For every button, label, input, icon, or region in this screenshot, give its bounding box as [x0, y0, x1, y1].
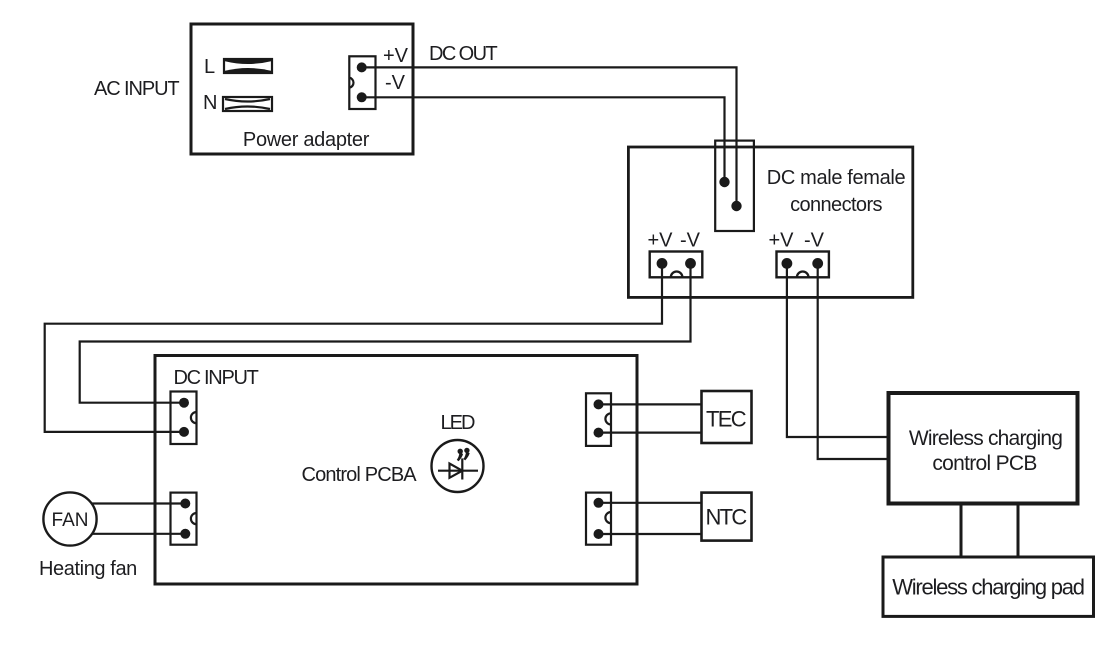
pin J3 -V: [685, 258, 696, 269]
svg-text:Wireless charging: Wireless charging: [909, 427, 1062, 450]
connector J6 (fan): [171, 493, 197, 545]
pin J2 b: [731, 201, 741, 211]
svg-text:Wireless charging pad: Wireless charging pad: [892, 575, 1083, 600]
wire TEC lower: [599, 432, 702, 434]
pin J6 upper: [180, 499, 190, 509]
connector J6 notch: [191, 513, 197, 524]
pin J4 -V: [812, 258, 823, 269]
connector J4 (female, to wireless PCB): [777, 252, 829, 278]
svg-text:-V: -V: [385, 72, 406, 94]
AC blade N: [223, 97, 272, 111]
connector J8 (NTC): [586, 493, 611, 545]
connector J4 notch: [797, 272, 809, 278]
connector J3 notch: [671, 271, 683, 277]
connector J3 (female, to control PCBA): [650, 252, 703, 278]
LED triangle: [450, 464, 463, 478]
wire J3 -V to DC INPUT upper pin: [80, 263, 691, 402]
pin J6 lower: [180, 529, 190, 539]
pin J4 +V: [782, 258, 793, 269]
svg-text:FAN: FAN: [52, 510, 89, 531]
connector J5 notch: [191, 412, 197, 423]
pin J7 upper: [594, 399, 604, 409]
fan FAN1 circle: [43, 492, 96, 545]
svg-text:LED: LED: [441, 412, 475, 434]
pin J5 lower: [179, 427, 189, 437]
LED anode wire: [438, 470, 478, 472]
svg-text:DC INPUT: DC INPUT: [174, 367, 259, 389]
LED cathode bar: [461, 458, 463, 479]
svg-text:+V: +V: [769, 230, 795, 252]
svg-text:+V: +V: [648, 230, 674, 252]
wire fan lower: [92, 533, 184, 535]
control PCBA box: [155, 356, 637, 585]
NTC box: [702, 493, 752, 541]
wire NTC upper: [599, 502, 702, 504]
wire control PCB to pad right: [1017, 505, 1020, 557]
pin J8 upper: [594, 498, 604, 508]
svg-text:-V: -V: [680, 230, 701, 252]
power adapter box: [191, 24, 413, 154]
wire J4 -V to wireless charging control PCB: [818, 263, 888, 459]
connector J7 (TEC): [586, 393, 611, 446]
pin J5 upper: [179, 398, 189, 408]
wire fan upper: [92, 502, 184, 504]
pin J3 +V: [657, 258, 668, 269]
wire NTC lower: [599, 533, 702, 535]
LED circle: [432, 440, 484, 492]
DC male female connectors box: [628, 147, 912, 297]
TEC box: [702, 391, 752, 443]
svg-text:Control PCBA: Control PCBA: [302, 464, 418, 486]
wire J3 +V to DC INPUT lower pin: [45, 263, 662, 432]
connector J7 notch: [605, 413, 611, 424]
svg-text:connectors: connectors: [790, 194, 882, 216]
svg-text:DC male female: DC male female: [767, 167, 906, 189]
LED emission arrows: [458, 449, 463, 454]
svg-text:control PCB: control PCB: [932, 452, 1036, 475]
wireless charging pad box: [883, 557, 1094, 616]
pin J1 +V: [357, 62, 367, 72]
AC blade L: [224, 59, 272, 73]
svg-text:-V: -V: [804, 230, 825, 252]
svg-text:Power adapter: Power adapter: [243, 129, 370, 151]
svg-text:Heating fan: Heating fan: [39, 558, 137, 580]
svg-text:DC OUT: DC OUT: [429, 43, 497, 65]
connector J2 (DC male plug): [715, 141, 754, 231]
pin J8 lower: [594, 529, 604, 539]
LED D1: [432, 440, 484, 492]
svg-text:+V: +V: [383, 45, 409, 67]
connector J1 notch: [349, 78, 353, 88]
svg-text:L: L: [204, 56, 215, 78]
connector J8 notch: [605, 512, 611, 523]
wire +V from power adapter to DC male connector: [362, 67, 737, 206]
svg-text:AC INPUT: AC INPUT: [94, 78, 179, 100]
pin J1 -V: [357, 92, 367, 102]
svg-text:NTC: NTC: [705, 505, 747, 530]
wire -V from power adapter to DC male connector: [362, 97, 725, 182]
pin J2 a: [719, 177, 729, 187]
connector J1 (power adapter DC out): [349, 56, 375, 109]
wire control PCB to pad left: [960, 505, 963, 557]
connector J5 (DC INPUT): [171, 392, 197, 445]
svg-text:N: N: [203, 92, 217, 114]
wireless charging control PCB box: [889, 393, 1078, 504]
wire J4 +V to wireless charging control PCB: [787, 263, 888, 437]
svg-text:TEC: TEC: [706, 407, 747, 432]
wire TEC upper: [599, 403, 702, 405]
pin J7 lower: [594, 428, 604, 438]
